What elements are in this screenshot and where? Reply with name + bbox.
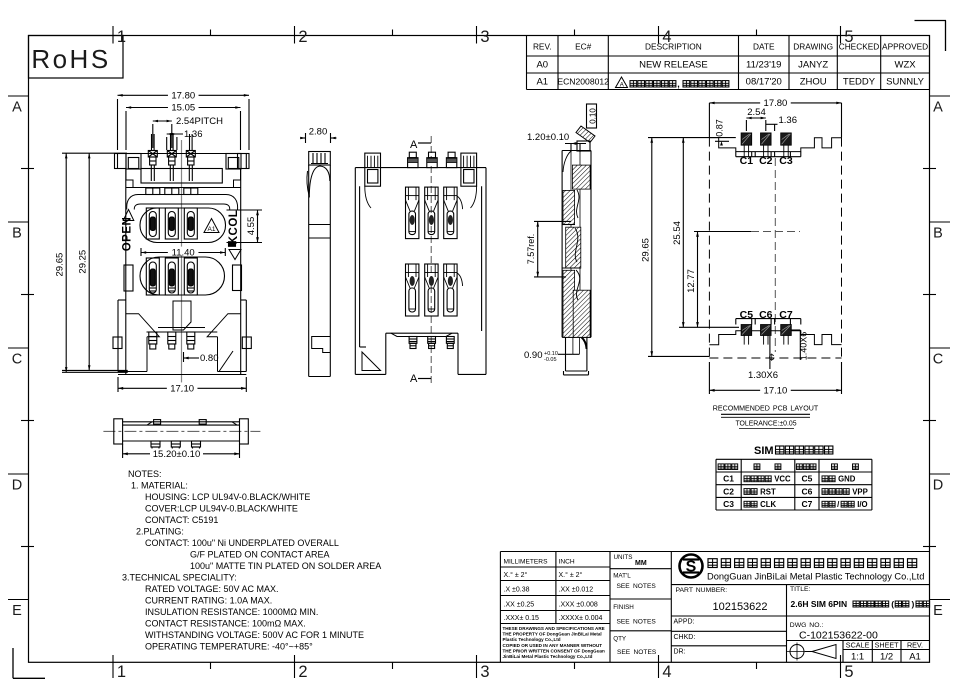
svg-text:1:1: 1:1 [851, 652, 864, 663]
svg-text:25.54: 25.54 [672, 221, 683, 245]
svg-text:X.° ± 2°: X.° ± 2° [559, 571, 583, 579]
svg-text:1.30X6: 1.30X6 [748, 370, 778, 381]
svg-text:C2: C2 [723, 486, 734, 496]
svg-text:29.65: 29.65 [55, 253, 66, 277]
svg-text:I/O: I/O [857, 500, 867, 509]
svg-text:C6: C6 [759, 309, 773, 321]
svg-text:SIM: SIM [754, 445, 774, 457]
svg-text:ZHOU: ZHOU [800, 77, 827, 88]
svg-text:A0: A0 [536, 60, 548, 71]
svg-text:A1: A1 [536, 77, 548, 88]
svg-text:SEE NOTES: SEE NOTES [617, 619, 657, 626]
svg-text:17.10: 17.10 [764, 385, 788, 396]
svg-text:,: , [677, 79, 680, 89]
svg-text:C7: C7 [779, 309, 793, 321]
svg-text:THE PROPERTY OF DongGuan JinBi: THE PROPERTY OF DongGuan JinBiLai Metal [503, 632, 602, 637]
svg-text:DRAWING: DRAWING [793, 42, 833, 52]
svg-text:NOTES:: NOTES: [128, 469, 162, 479]
svg-text:SHEET: SHEET [875, 641, 900, 650]
svg-text:WITHSTANDING VOLTAGE: 500V: WITHSTANDING VOLTAGE: 500V AC FOR 1 MINU… [145, 630, 364, 640]
svg-text:REV.: REV. [907, 641, 923, 650]
svg-text:ECN2008012: ECN2008012 [557, 77, 609, 87]
svg-text:INSULATION RESISTANCE: 1000M: INSULATION RESISTANCE: 1000MΩ MIN. [145, 607, 318, 617]
svg-text:C: C [12, 352, 22, 368]
svg-text:2.54: 2.54 [747, 107, 766, 118]
svg-text:DR:: DR: [674, 649, 686, 656]
svg-text:OPEN: OPEN [122, 217, 134, 252]
svg-text:7.57ref.: 7.57ref. [526, 234, 536, 265]
svg-text:RoHS: RoHS [31, 44, 110, 74]
svg-text:17.10: 17.10 [170, 383, 194, 394]
svg-text:DESCRIPTION: DESCRIPTION [645, 42, 702, 52]
svg-text:JinBiLai Metal Plastic Technol: JinBiLai Metal Plastic Technology Co.,Lt… [503, 654, 593, 659]
svg-text:C6: C6 [801, 486, 812, 496]
svg-text:17.80: 17.80 [171, 90, 195, 101]
svg-text:2: 2 [298, 28, 307, 46]
svg-text:TOLERANCE:±0.05: TOLERANCE:±0.05 [735, 421, 796, 428]
svg-text:C5: C5 [801, 474, 812, 484]
svg-text:A1: A1 [208, 226, 216, 233]
svg-text:29.65: 29.65 [641, 238, 652, 262]
svg-text:11/23'19: 11/23'19 [746, 60, 781, 71]
svg-text:THESE DRAWINGS AND SPECIFICATI: THESE DRAWINGS AND SPECIFICATIONS ARE [503, 626, 605, 631]
svg-text:08/17'20: 08/17'20 [746, 77, 782, 88]
svg-text:UNITS: UNITS [614, 554, 633, 561]
svg-text:G/F PLATED ON CONTACT AREA: G/F PLATED ON CONTACT AREA [190, 550, 330, 560]
svg-text:2.54PITCH: 2.54PITCH [176, 116, 223, 127]
svg-text:.X ±0.38: .X ±0.38 [504, 587, 530, 594]
svg-text:3.TECHNICAL SPECIALITY:: 3.TECHNICAL SPECIALITY: [122, 573, 237, 583]
svg-text:C3: C3 [779, 155, 793, 167]
svg-text:CONTACT: 100u" Ni UNDERPLAT: CONTACT: 100u" Ni UNDERPLATED OVERALL [145, 538, 339, 548]
svg-text:GND: GND [838, 475, 856, 484]
svg-text:CONTACT RESISTANCE: 100mΩ M: CONTACT RESISTANCE: 100mΩ MAX. [145, 619, 306, 629]
svg-text:0.10: 0.10 [589, 108, 598, 124]
svg-text:NEW RELEASE: NEW RELEASE [639, 60, 708, 71]
svg-text:3: 3 [480, 28, 489, 46]
svg-text:C1: C1 [723, 474, 734, 484]
svg-text:CURRENT RATING: 1.0A MAX.: CURRENT RATING: 1.0A MAX. [145, 596, 272, 606]
svg-text:CHKD:: CHKD: [674, 634, 696, 641]
svg-text:12.77: 12.77 [686, 269, 697, 293]
svg-text:-0.05: -0.05 [544, 357, 557, 363]
svg-text:.XXX ±0.008: .XXX ±0.008 [559, 602, 598, 609]
svg-text:2.PLATING:: 2.PLATING: [136, 527, 184, 537]
svg-text:.XX ±0.012: .XX ±0.012 [559, 587, 594, 594]
svg-text:MAT'L: MAT'L [613, 573, 631, 580]
svg-text:3: 3 [480, 663, 489, 681]
svg-text:A: A [410, 373, 418, 385]
svg-text:WZX: WZX [895, 60, 917, 71]
svg-text:C5: C5 [740, 309, 754, 321]
svg-text:HOUSING: LCP UL94V-0.BLACK/W: HOUSING: LCP UL94V-0.BLACK/WHITE [145, 492, 310, 502]
svg-text:29.25: 29.25 [78, 250, 89, 274]
svg-text:EC#: EC# [575, 42, 592, 52]
svg-text:.XXXX± 0.004: .XXXX± 0.004 [559, 615, 603, 622]
svg-text:SEE NOTES: SEE NOTES [617, 583, 657, 590]
svg-text:DongGuan JinBiLai Metal Pla: DongGuan JinBiLai Metal Plastic Technolo… [707, 572, 924, 582]
svg-text:1. MATERIAL:: 1. MATERIAL: [131, 481, 188, 491]
svg-text:CLK: CLK [760, 500, 776, 509]
svg-text:TITLE:: TITLE: [790, 586, 811, 593]
svg-text:4.55: 4.55 [246, 217, 257, 236]
svg-text:B: B [933, 226, 943, 242]
svg-text:0.87: 0.87 [715, 119, 725, 137]
svg-text:VPP: VPP [852, 487, 868, 496]
svg-text:100u" MATTE TIN PLATED ON: 100u" MATTE TIN PLATED ON SOLDER AREA [190, 561, 381, 571]
svg-text:SCALE: SCALE [846, 641, 870, 650]
svg-text:X.° ± 2°: X.° ± 2° [504, 571, 528, 579]
svg-text:A1: A1 [909, 652, 921, 663]
svg-text:QTY: QTY [613, 635, 627, 642]
svg-text:A: A [12, 100, 22, 116]
svg-text:C: C [933, 352, 943, 368]
svg-text:PART NUMBER:: PART NUMBER: [676, 587, 728, 594]
svg-text:COVER:LCP UL94V-0.BLACK/WHITE: COVER:LCP UL94V-0.BLACK/WHITE [145, 504, 298, 514]
svg-text:C3: C3 [723, 499, 734, 509]
svg-text:A: A [620, 83, 624, 89]
svg-text:FINISH: FINISH [613, 604, 634, 611]
svg-text:MM: MM [635, 560, 647, 567]
svg-text:B: B [12, 226, 22, 242]
svg-text:RATED VOLTAGE: 50V AC MAX.: RATED VOLTAGE: 50V AC MAX. [145, 584, 279, 594]
svg-text:1: 1 [117, 663, 126, 681]
svg-text:THE PRIOR WRITTEN CONSENT OF D: THE PRIOR WRITTEN CONSENT OF DongGuan [503, 648, 606, 653]
svg-text:REV.: REV. [533, 42, 552, 52]
svg-text:15.20±0.10: 15.20±0.10 [153, 449, 200, 460]
svg-text:A: A [410, 139, 418, 151]
svg-text:SUNNLY: SUNNLY [886, 77, 924, 88]
svg-text:DATE: DATE [753, 42, 775, 52]
svg-text:1: 1 [117, 28, 126, 46]
svg-text:17.80: 17.80 [764, 98, 788, 109]
svg-text:C7: C7 [801, 499, 812, 509]
svg-text:CHECKED: CHECKED [839, 42, 880, 52]
svg-text:C1: C1 [740, 155, 754, 167]
svg-text:2: 2 [298, 663, 307, 681]
svg-text:1.36: 1.36 [779, 115, 798, 126]
svg-text:RST: RST [760, 487, 776, 496]
svg-text:JANYZ: JANYZ [798, 60, 828, 71]
svg-text:102153622: 102153622 [712, 601, 767, 613]
svg-text:APPD:: APPD: [674, 619, 695, 626]
svg-text:COPIED OR USED IN ANY MANNER W: COPIED OR USED IN ANY MANNER WITHOUT [503, 643, 603, 648]
svg-text:): ) [911, 599, 914, 609]
svg-text:KCOL: KCOL [228, 210, 240, 245]
svg-text:D: D [12, 478, 22, 494]
svg-text:RECOMMENDED PCB LAYOUT: RECOMMENDED PCB LAYOUT [713, 405, 819, 413]
svg-text:4: 4 [662, 663, 671, 681]
svg-text:Plastic Technology Co.,Ltd: Plastic Technology Co.,Ltd [503, 637, 561, 642]
svg-text:VCC: VCC [774, 475, 791, 484]
svg-text:D: D [933, 478, 943, 494]
svg-text:E: E [933, 603, 943, 619]
svg-text:.XXX± 0.15: .XXX± 0.15 [504, 615, 539, 622]
svg-text:¢: ¢ [768, 352, 774, 364]
svg-text:INCH: INCH [559, 559, 575, 566]
svg-text:2.80: 2.80 [309, 127, 328, 138]
svg-text:1/2: 1/2 [880, 652, 893, 663]
svg-text:DWG NO.:: DWG NO.: [790, 622, 824, 629]
svg-text:OPERATING TEMPERATURE: -40°~: OPERATING TEMPERATURE: -40°~+85° [145, 642, 313, 652]
svg-text:C2: C2 [759, 155, 773, 167]
svg-text:A: A [933, 100, 943, 116]
svg-text:5: 5 [844, 663, 853, 681]
svg-text:0.80: 0.80 [200, 353, 219, 364]
svg-text:E: E [12, 603, 22, 619]
svg-text:.XX ±0.25: .XX ±0.25 [504, 602, 535, 609]
svg-text:2.6H SIM 6PIN: 2.6H SIM 6PIN [791, 599, 848, 609]
svg-text:APPROVED: APPROVED [882, 42, 928, 52]
svg-text:MILLIMETERS: MILLIMETERS [504, 559, 549, 566]
svg-text:1.36: 1.36 [184, 129, 203, 140]
svg-text:(: ( [891, 599, 894, 609]
svg-text:1.20±0.10: 1.20±0.10 [527, 132, 569, 143]
svg-text:SEE NOTES: SEE NOTES [617, 649, 657, 656]
svg-text:TEDDY: TEDDY [843, 77, 876, 88]
svg-text:0.90: 0.90 [524, 350, 543, 361]
svg-text:CONTACT: C5191: CONTACT: C5191 [145, 515, 218, 525]
svg-text:+0.10: +0.10 [544, 351, 558, 357]
svg-text:15.05: 15.05 [171, 103, 195, 114]
